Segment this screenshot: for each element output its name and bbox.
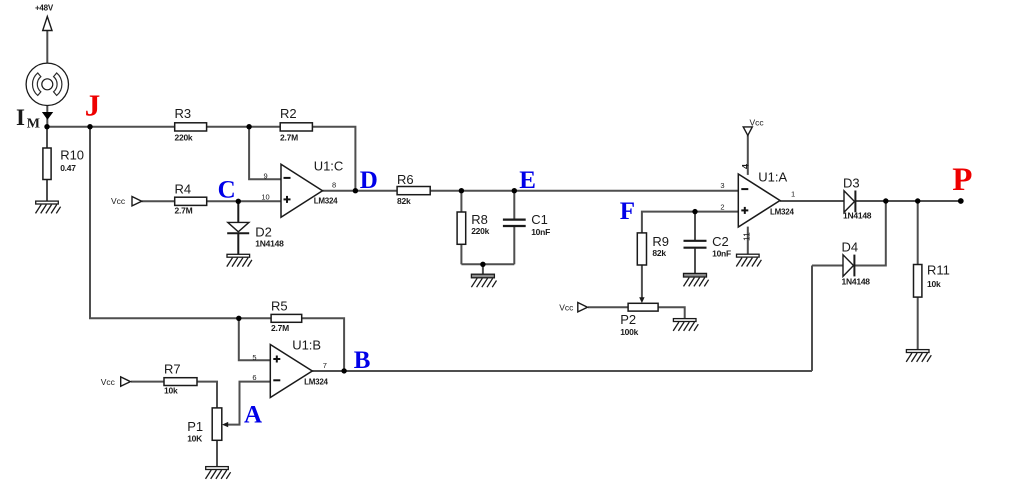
svg-text:+48V: +48V — [35, 4, 54, 13]
svg-text:5: 5 — [252, 353, 256, 362]
svg-text:10: 10 — [261, 192, 269, 201]
svg-text:R5: R5 — [271, 299, 288, 314]
svg-text:D2: D2 — [255, 224, 272, 239]
svg-text:U1:C: U1:C — [314, 159, 344, 174]
svg-text:R10: R10 — [60, 148, 84, 163]
svg-text:8: 8 — [332, 181, 336, 190]
svg-text:R7: R7 — [164, 362, 181, 377]
svg-text:C2: C2 — [712, 234, 729, 249]
svg-text:R11: R11 — [927, 263, 950, 278]
svg-text:4: 4 — [741, 164, 751, 169]
svg-text:1N4148: 1N4148 — [843, 211, 872, 221]
svg-text:R4: R4 — [175, 182, 192, 197]
svg-text:9: 9 — [264, 172, 268, 181]
svg-text:1: 1 — [791, 190, 795, 199]
svg-text:U1:B: U1:B — [292, 338, 321, 353]
svg-text:C: C — [218, 176, 236, 203]
svg-text:7: 7 — [323, 361, 327, 370]
svg-text:100k: 100k — [620, 327, 638, 337]
svg-text:J: J — [85, 88, 101, 123]
svg-text:Vcc: Vcc — [111, 196, 126, 206]
svg-text:U1:A: U1:A — [758, 170, 787, 185]
svg-text:Vcc: Vcc — [559, 302, 574, 312]
svg-text:11: 11 — [741, 232, 751, 241]
svg-text:D3: D3 — [843, 176, 860, 191]
svg-text:10k: 10k — [164, 386, 178, 396]
svg-text:2.7M: 2.7M — [280, 133, 298, 143]
svg-text:82k: 82k — [652, 248, 666, 258]
svg-text:220k: 220k — [471, 226, 489, 236]
svg-text:1N4148: 1N4148 — [842, 276, 871, 286]
svg-text:0.47: 0.47 — [60, 163, 76, 173]
svg-text:1N4148: 1N4148 — [255, 239, 284, 249]
svg-text:D4: D4 — [842, 240, 859, 255]
svg-text:2: 2 — [720, 203, 724, 212]
svg-text:Vcc: Vcc — [101, 377, 116, 387]
svg-text:E: E — [519, 167, 536, 194]
svg-text:LM324: LM324 — [314, 197, 338, 206]
svg-text:3: 3 — [720, 181, 724, 190]
svg-text:Vcc: Vcc — [750, 118, 765, 128]
svg-text:6: 6 — [252, 373, 256, 382]
svg-text:10nF: 10nF — [712, 248, 731, 258]
svg-text:D: D — [360, 167, 378, 194]
svg-text:I: I — [16, 105, 25, 130]
svg-text:LM324: LM324 — [770, 207, 794, 216]
svg-text:R3: R3 — [175, 106, 192, 121]
svg-text:2.7M: 2.7M — [175, 205, 193, 215]
svg-text:F: F — [620, 198, 635, 225]
svg-text:82k: 82k — [397, 196, 411, 206]
svg-text:10k: 10k — [927, 279, 941, 289]
svg-text:R9: R9 — [652, 234, 669, 249]
svg-text:2.7M: 2.7M — [271, 323, 289, 333]
svg-text:R8: R8 — [471, 212, 488, 227]
svg-text:P2: P2 — [620, 312, 636, 327]
svg-text:10nF: 10nF — [531, 227, 550, 237]
svg-text:R2: R2 — [280, 106, 297, 121]
svg-text:R6: R6 — [397, 172, 414, 187]
svg-text:220k: 220k — [175, 133, 193, 143]
svg-text:B: B — [354, 347, 371, 374]
svg-text:10K: 10K — [187, 434, 203, 444]
svg-text:C1: C1 — [531, 212, 548, 227]
svg-text:LM324: LM324 — [304, 377, 328, 386]
svg-text:A: A — [244, 402, 262, 429]
svg-text:M: M — [27, 117, 40, 132]
svg-text:P1: P1 — [187, 419, 203, 434]
svg-text:P: P — [952, 162, 972, 198]
